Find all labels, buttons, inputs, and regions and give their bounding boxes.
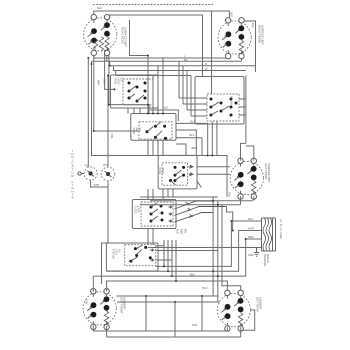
- wire SB1 under: [128, 108, 140, 114]
- wire ind bottom link: [91, 180, 108, 187]
- wire vert x187: [186, 71, 188, 111]
- wire TL bot stubs: [94, 53, 107, 62]
- switch box SB4: [158, 155, 197, 189]
- wire TL drop x104.6: [105, 51, 115, 89]
- svg-text:BLK: BLK: [190, 133, 195, 137]
- wire left vert A: [87, 58, 89, 167]
- wire TR stub right: [242, 21, 256, 72]
- wire stair y123.4: [176, 123, 208, 155]
- svg-text:ON: ON: [85, 165, 89, 168]
- label SB3 text: [132, 128, 141, 135]
- wire bottom y302: [117, 301, 220, 303]
- labels BLK RED WH under SB5: [176, 229, 187, 234]
- label oven light switch text: [114, 78, 123, 86]
- label terminal block pins L1 N L2 GND: [279, 219, 283, 239]
- wire jog N upper: [227, 207, 233, 231]
- indicator light HOT: [101, 167, 115, 181]
- svg-text:ELEMENT: ELEMENT: [123, 297, 127, 310]
- wire SB2 left in: [179, 98, 207, 116]
- wire N net: [106, 231, 261, 272]
- wire vert x158: [157, 66, 159, 156]
- svg-text:BLK: BLK: [229, 12, 233, 17]
- wire L2 net: [93, 239, 261, 292]
- svg-text:L1 N L2 GND: L1 N L2 GND: [279, 219, 283, 239]
- svg-text:Y: Y: [184, 54, 186, 58]
- svg-text:R: R: [205, 62, 207, 66]
- switch box SB2: [195, 77, 244, 125]
- wire SB2 right out: [239, 99, 246, 115]
- wire vert x213.1: [212, 197, 214, 296]
- wire left vert B: [92, 61, 228, 197]
- svg-text:BK: BK: [184, 58, 188, 62]
- wire bottom y331: [93, 327, 227, 331]
- wire bus y65.8: [110, 62, 256, 66]
- wire bus y61.3: [92, 57, 242, 62]
- svg-text:RED: RED: [248, 235, 254, 239]
- label unit bottom-left: [120, 297, 127, 314]
- rotary switch left front surface unit (mid right): [230, 158, 263, 199]
- wire SW3 top feeds: [241, 143, 254, 160]
- wire stair y130: [176, 130, 196, 156]
- svg-text:BLK: BLK: [251, 23, 255, 28]
- svg-text:HOT: HOT: [103, 164, 109, 167]
- wire SB6 out links: [156, 246, 218, 260]
- label indicator lights: [71, 149, 74, 200]
- label unit top-right: [258, 25, 265, 45]
- switch box SB6: [106, 243, 158, 271]
- wire h y204.7: [140, 204, 240, 206]
- svg-text:LOCK: LOCK: [114, 249, 117, 256]
- svg-text:WHT: WHT: [94, 184, 100, 187]
- svg-text:CLOCK: CLOCK: [134, 206, 137, 215]
- svg-text:WHT: WHT: [97, 80, 100, 86]
- wire vert x217.8: [217, 201, 219, 302]
- wire branch x211: [211, 11, 213, 94]
- wire left vert C: [94, 53, 139, 131]
- wire bottom y337: [107, 327, 241, 337]
- svg-text:THERMO: THERMO: [112, 249, 115, 259]
- svg-text:BLOCK: BLOCK: [266, 254, 269, 263]
- svg-text:TAN: TAN: [192, 323, 197, 327]
- svg-text:& TMR: & TMR: [136, 206, 139, 214]
- svg-text:WHT: WHT: [248, 227, 254, 231]
- svg-text:BRN: BRN: [192, 146, 198, 150]
- svg-text:TAN: TAN: [110, 133, 114, 138]
- switch box SB3 oven control: [131, 114, 176, 141]
- wire top dashed enclosure: [93, 4, 214, 6]
- wire ind right drop: [102, 76, 109, 285]
- svg-text:BLK: BLK: [190, 272, 195, 276]
- wire long y247: [148, 247, 257, 249]
- wire L1 net: [156, 221, 262, 266]
- SB6 text: [112, 249, 121, 259]
- svg-text:BLK: BLK: [163, 106, 168, 110]
- wire TL right side: [130, 20, 149, 56]
- svg-text:OVEN: OVEN: [158, 167, 161, 174]
- wire stair y137.7: [176, 138, 202, 156]
- switch box SB5: [132, 200, 176, 229]
- wire vert x163: [162, 58, 164, 200]
- wire vert x183: [182, 66, 184, 104]
- wire bottom verts: [146, 296, 202, 337]
- svg-text:SEL: SEL: [135, 128, 138, 133]
- svg-text:ELEMENT: ELEMENT: [259, 297, 263, 310]
- wire SB4 under: [140, 189, 218, 197]
- svg-text:BLK: BLK: [191, 120, 196, 124]
- svg-text:TEMP: TEMP: [161, 167, 164, 174]
- rotary switch right front surface unit (top right): [218, 18, 251, 59]
- label SB4 text: [158, 167, 164, 174]
- wire vert x148: [147, 56, 149, 245]
- svg-text:BLK: BLK: [176, 229, 179, 234]
- svg-text:SURFACE UNIT: SURFACE UNIT: [261, 25, 265, 45]
- wire stair y144: [176, 144, 186, 156]
- wire SW5 right: [241, 310, 255, 330]
- svg-text:BLK: BLK: [248, 217, 253, 221]
- label unit mid-right: [264, 163, 271, 183]
- wire x164 bundle: [164, 240, 176, 281]
- wire SW4 top2 net: [107, 281, 228, 292]
- label terminal block name: [263, 254, 269, 267]
- wire bus y70.5: [114, 66, 246, 71]
- wire SB5 out1: [175, 201, 214, 209]
- wire bus y75.5: [116, 71, 191, 76]
- svg-text:BLK: BLK: [203, 286, 208, 290]
- arrowheads SB5 outs: [185, 202, 192, 217]
- svg-text:SURFACE UNIT: SURFACE UNIT: [124, 27, 128, 47]
- wire vert x179: [178, 61, 180, 98]
- svg-text:TAN: TAN: [85, 299, 89, 304]
- label SB2 text: [230, 96, 233, 105]
- indicator light ON: [78, 167, 97, 180]
- svg-text:RED: RED: [179, 229, 182, 234]
- wire SB4 to SW3: [197, 167, 230, 188]
- svg-text:BLK: BLK: [103, 79, 106, 84]
- wire vert x245.9: [245, 76, 247, 144]
- svg-text:TERMINAL: TERMINAL: [263, 254, 266, 267]
- wire SB5 out2: [175, 207, 227, 216]
- rotary switch right rear surface unit (top left): [84, 14, 117, 55]
- wire top run 1: [94, 11, 230, 18]
- arrowheads SB4 outs: [190, 165, 193, 176]
- wire TL drop x108.9: [109, 51, 149, 114]
- wire SW5 t2 net: [222, 205, 241, 291]
- wire SB5 out3: [175, 213, 214, 223]
- switch box SB1: [111, 75, 159, 108]
- wire bus y58: [94, 57, 228, 58]
- svg-text:SURFACE UNIT: SURFACE UNIT: [267, 163, 271, 183]
- rotary switch left rear element (bottom right): [217, 290, 250, 331]
- label unit bottom-right: [256, 297, 263, 312]
- wire vert x153: [152, 76, 154, 245]
- wire SB2 drop 1: [211, 122, 213, 156]
- wire bottom y296: [117, 295, 219, 297]
- svg-text:INF SW: INF SW: [230, 96, 233, 105]
- wire vert x191: [190, 76, 192, 117]
- wire SB2 drop 2: [216, 122, 218, 156]
- wire SW4 bottoms: [93, 326, 106, 337]
- terminal block TB1: [262, 218, 276, 251]
- rotary switch left front element (bottom left): [83, 289, 116, 330]
- svg-text:BLK: BLK: [97, 6, 102, 10]
- svg-text:LIGHT: LIGHT: [116, 78, 119, 86]
- label unit top-left: [121, 27, 128, 47]
- svg-text:WH: WH: [183, 229, 186, 233]
- svg-text:BLK: BLK: [227, 193, 230, 198]
- svg-text:GRD: GRD: [248, 254, 254, 257]
- wire h y200.8: [150, 200, 253, 202]
- svg-text:OVEN: OVEN: [114, 78, 117, 85]
- wire above SB3 b: [150, 110, 178, 121]
- wire SW3 bot drops: [241, 196, 254, 205]
- ground symbol: [254, 248, 262, 257]
- svg-text:S: S: [71, 196, 73, 200]
- svg-text:OVEN: OVEN: [132, 128, 135, 135]
- wire top run 2: [107, 15, 203, 77]
- SB5 text: [134, 206, 140, 215]
- svg-text:Y: Y: [133, 52, 135, 56]
